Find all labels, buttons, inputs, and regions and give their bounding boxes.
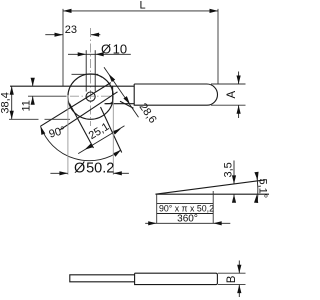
dimension 11 arrow top <box>31 78 35 87</box>
development wedge bottom line <box>156 193 270 195</box>
dimension A extension bottom <box>211 104 246 106</box>
dimension 23 arrow left <box>55 33 64 37</box>
shaft outline <box>134 84 217 105</box>
dimension 360 line <box>145 222 230 224</box>
svg-text:38,4: 38,4 <box>0 92 12 113</box>
dimension 3,5 line lower <box>233 194 235 201</box>
svg-text:360°: 360° <box>177 214 198 225</box>
dimension A arrow top <box>237 76 241 85</box>
dimension 11 extension line <box>28 95 67 97</box>
svg-text:A: A <box>226 91 238 99</box>
dimension B arrow top <box>237 265 241 274</box>
svg-text:Ø10: Ø10 <box>101 41 127 56</box>
dimension 38,4 arrow bottom <box>10 111 14 120</box>
blade bottom edge with corner into notch edge <box>105 103 135 105</box>
dimension 28,6 arrow upper <box>107 73 115 82</box>
angle 5,1 arc <box>257 174 258 203</box>
dimension 3,5 arrow lower <box>232 194 236 203</box>
centerline vertical <box>90 28 92 126</box>
dimension B line bottom <box>238 285 240 297</box>
dimension d50.2 arrow right <box>113 171 122 175</box>
dimension 25,1 line <box>78 126 124 154</box>
dimension L arrow left <box>63 9 72 13</box>
notch edge D1 through center <box>41 83 111 127</box>
notch edge D3 <box>70 104 94 149</box>
dimension B extension bottom <box>218 284 246 286</box>
svg-text:3,5: 3,5 <box>222 162 234 177</box>
development box right vertical <box>212 191 214 223</box>
tangent line at disc top <box>72 73 99 75</box>
development wedge slant line <box>156 180 266 194</box>
dimension L extension line right <box>217 9 219 84</box>
dimension d10 line <box>68 53 131 55</box>
dimension A line bottom <box>238 105 240 118</box>
hole circle <box>86 92 95 101</box>
dimension d10 arrow right <box>95 52 104 56</box>
dimension 11 line top <box>32 80 34 87</box>
svg-text:11: 11 <box>21 100 33 111</box>
dimension A arrow bottom <box>237 105 241 114</box>
dimension 38,4 line <box>11 86 13 119</box>
svg-text:L: L <box>140 0 146 12</box>
dimension B extension top <box>218 272 246 274</box>
svg-text:90° x π x 50,2: 90° x π x 50,2 <box>159 203 214 213</box>
dimension d50.2 line <box>50 172 68 174</box>
dimension 3,5 line upper <box>233 161 235 184</box>
dimension 38,4 arrow top <box>10 86 14 95</box>
dimension d10 extension line right <box>94 50 96 91</box>
dimension A extension top <box>211 83 246 85</box>
dimension L extension line left <box>62 9 64 86</box>
centerline horizontal <box>70 95 113 97</box>
dimension B line top <box>238 261 240 274</box>
dimension 360 arrow left <box>148 221 157 225</box>
dimension 25,1 arrow upper <box>113 127 122 135</box>
dimension d50.2 arrow left <box>59 171 68 175</box>
dimension B arrow bottom <box>237 285 241 294</box>
dimension d50.2 extension left <box>67 95 69 175</box>
dimension d10 extension line left <box>85 50 87 91</box>
development box divider line <box>157 213 214 215</box>
bottom view shaft section <box>135 273 218 284</box>
notch edge D4 <box>101 107 122 153</box>
development box left vertical <box>156 194 158 223</box>
notch edge D2 <box>60 92 118 130</box>
dimension 11 arrow bottom <box>31 96 35 105</box>
small edge line right of corner <box>120 101 134 108</box>
dimension 11 line bottom <box>32 96 34 102</box>
angle 90 arrow left <box>39 125 46 134</box>
angle 5,1 arrow lower <box>254 194 259 203</box>
development box top line <box>157 202 214 204</box>
disc gash vertical with fillet <box>106 86 113 104</box>
dimension 38,4 extension bottom <box>9 118 39 120</box>
angle 90 arc <box>41 126 122 161</box>
svg-text:Ø50.2: Ø50.2 <box>74 161 114 177</box>
dimension 360 arrow right <box>213 221 222 225</box>
angle 5,1 arrow upper <box>254 172 259 181</box>
dimension 28,6 line <box>104 67 139 117</box>
dimension L line <box>63 10 218 12</box>
dimension 3,5 arrow upper <box>232 175 236 184</box>
angle 90 arrow right <box>113 148 122 157</box>
blade top edge <box>10 85 134 87</box>
dimension d50.2 extension right <box>112 95 114 175</box>
svg-text:5,1°: 5,1° <box>257 179 269 199</box>
disc circle <box>68 74 113 119</box>
dimension L arrow right <box>210 9 219 13</box>
dimension 23 arrow right <box>91 33 100 37</box>
dimension 23 line <box>45 34 63 36</box>
dimension 25,1 arrow lower <box>83 144 92 152</box>
svg-text:B: B <box>226 275 238 283</box>
dimension A line top <box>238 72 240 85</box>
bottom view blade thin section <box>70 275 135 282</box>
dimension d10 arrow left <box>78 52 87 56</box>
tangent dash <box>99 75 102 77</box>
dimension 28,6 arrow lower <box>123 96 131 105</box>
svg-text:23: 23 <box>65 24 77 36</box>
